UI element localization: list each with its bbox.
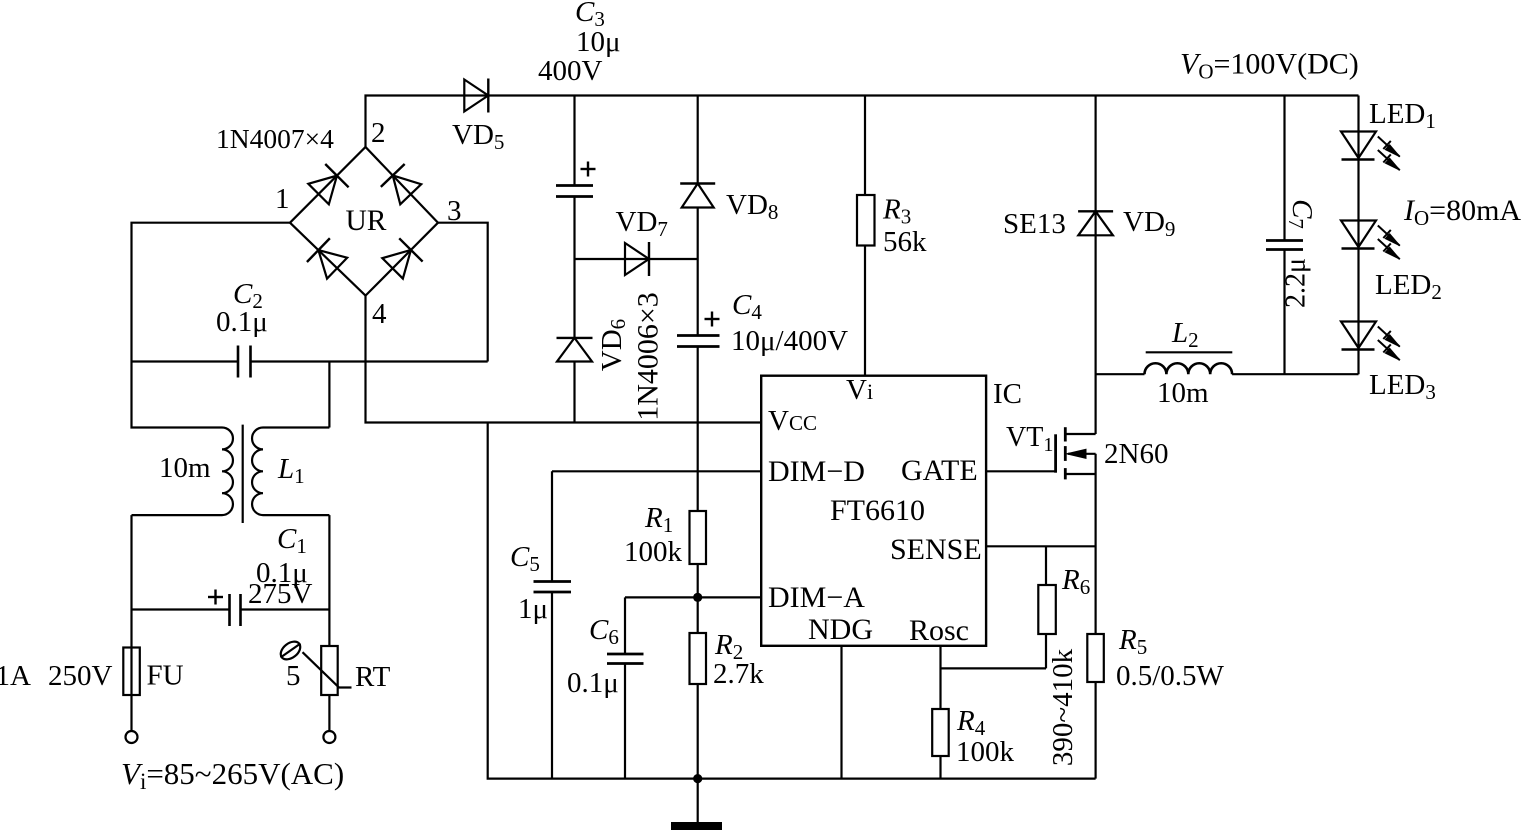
svg-text:DIM−A: DIM−A <box>768 581 865 614</box>
svg-text:1: 1 <box>275 183 290 215</box>
svg-text:10m: 10m <box>1157 377 1209 409</box>
svg-text:Vi=85~265V(AC): Vi=85~265V(AC) <box>121 756 344 794</box>
svg-text:10μ/400V: 10μ/400V <box>731 325 848 357</box>
svg-text:2.2μ: 2.2μ <box>1281 258 1312 308</box>
svg-text:2N60: 2N60 <box>1104 438 1168 470</box>
svg-text:5: 5 <box>286 660 301 692</box>
svg-text:DIM−D: DIM−D <box>768 455 865 488</box>
svg-text:100k: 100k <box>956 736 1015 768</box>
svg-text:250V: 250V <box>48 660 113 692</box>
svg-text:NDG: NDG <box>808 613 873 646</box>
svg-text:100k: 100k <box>624 536 683 568</box>
svg-text:GATE: GATE <box>901 454 978 487</box>
svg-text:IC: IC <box>993 378 1022 410</box>
svg-text:0.1μ: 0.1μ <box>567 667 619 699</box>
svg-text:275V: 275V <box>248 578 313 610</box>
svg-text:1μ: 1μ <box>518 593 548 625</box>
svg-text:2.7k: 2.7k <box>713 658 764 690</box>
svg-text:0.5/0.5W: 0.5/0.5W <box>1116 660 1225 692</box>
svg-text:4: 4 <box>372 298 387 330</box>
svg-text:56k: 56k <box>883 226 927 258</box>
svg-text:SE13: SE13 <box>1003 208 1066 240</box>
svg-text:390~410k: 390~410k <box>1047 648 1079 766</box>
svg-text:FT6610: FT6610 <box>830 494 925 527</box>
svg-text:0.1μ: 0.1μ <box>216 306 268 338</box>
svg-text:Vi: Vi <box>846 374 873 406</box>
svg-text:UR: UR <box>346 205 387 237</box>
svg-text:Rosc: Rosc <box>909 614 969 647</box>
svg-text:FU: FU <box>147 660 184 692</box>
svg-text:400V: 400V <box>538 55 603 87</box>
svg-text:SENSE: SENSE <box>890 533 982 566</box>
svg-text:RT: RT <box>355 661 391 693</box>
svg-text:1N4006×3: 1N4006×3 <box>632 292 665 421</box>
svg-text:1N4007×4: 1N4007×4 <box>216 123 334 154</box>
svg-text:10μ: 10μ <box>576 26 621 58</box>
svg-text:3: 3 <box>447 195 462 227</box>
svg-text:1A: 1A <box>0 660 31 692</box>
svg-text:10m: 10m <box>159 452 211 484</box>
svg-text:2: 2 <box>371 117 386 149</box>
